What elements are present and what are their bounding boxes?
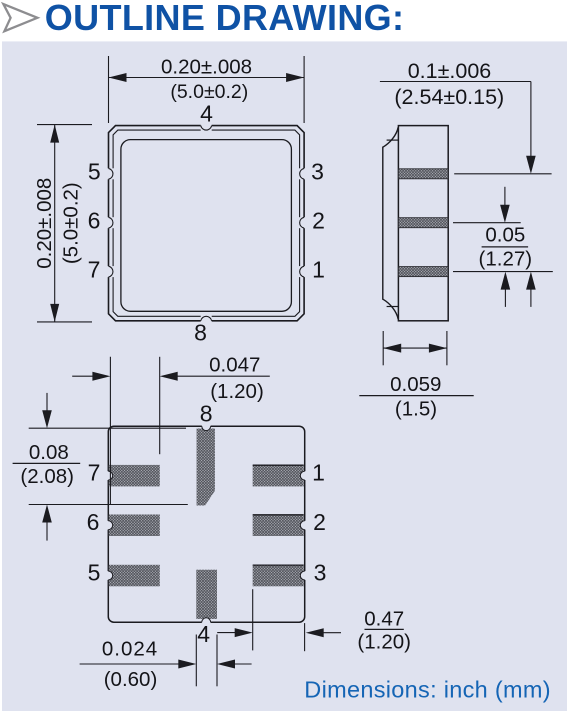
svg-text:3: 3 — [314, 560, 327, 586]
left height dimension tick top — [37, 124, 92, 126]
svg-text:4: 4 — [197, 621, 210, 647]
0.47 dim right tail line — [323, 632, 341, 634]
svg-text:(0.60): (0.60) — [104, 668, 158, 691]
pin 4 label (bottom view) — [197, 621, 210, 647]
pad P1 top border line — [253, 464, 304, 466]
pin 1 label (top view) — [312, 256, 325, 282]
top width dimension arrowhead left — [109, 73, 127, 82]
left height dimension tick bottom — [37, 321, 92, 323]
top view cavity (rounded square) — [121, 140, 292, 312]
0.047 dim left tail line — [72, 375, 93, 377]
0.47 dim extension line at body right edge — [304, 623, 306, 651]
pad P1 (hatched) — [253, 465, 304, 487]
0.047 dim extension line 2 — [159, 357, 161, 454]
dimension text 0.05 — [485, 223, 525, 246]
0.08 dim upper line — [29, 427, 186, 429]
dimension text 0.024 — [102, 638, 158, 661]
svg-text:Dimensions: inch (mm): Dimensions: inch (mm) — [304, 677, 551, 703]
top width dimension extension line left — [108, 56, 110, 123]
castellation notch pin 6 (top view left) — [106, 217, 114, 228]
svg-text:2: 2 — [313, 509, 326, 535]
dimension text (1.20) top — [210, 380, 264, 403]
0.47 dim arrowhead right-pointing — [235, 628, 253, 637]
pin 3 label (bottom view) — [314, 560, 327, 586]
pad P2 top border line — [253, 514, 304, 516]
0.08 dim up arrow stem — [46, 522, 48, 541]
left height dimension arrowhead top — [50, 125, 59, 143]
svg-text:7: 7 — [88, 460, 101, 486]
0.08 dim down arrowhead — [42, 410, 52, 428]
svg-text:0.08: 0.08 — [29, 441, 69, 464]
dimension text (5.0±0.2) (left, rotated) — [60, 182, 83, 264]
bottom view notch pin 7 — [107, 471, 113, 480]
side view 0.059 dim extension line left — [382, 331, 384, 365]
pad P5 (hatched) — [109, 565, 160, 587]
dimension text 0.059 — [390, 373, 441, 396]
top width dimension arrowhead right — [286, 73, 304, 82]
dimension text (5.0±0.2) (top) — [170, 81, 248, 103]
fraction bar 0.05/(1.27) — [482, 246, 528, 248]
side view 0.05 dim down arrow stem — [504, 187, 506, 205]
svg-text:0.20±.008: 0.20±.008 — [161, 55, 252, 78]
0.08 dim lower line — [29, 504, 188, 506]
dimension text (1.20) right — [357, 631, 411, 654]
bottom view body outline (rounded square) — [108, 426, 304, 622]
side view 0.059 arrowhead left — [383, 344, 401, 353]
side view 0.1 dim up arrowhead at band line 3 — [526, 272, 536, 290]
svg-text:1: 1 — [312, 256, 325, 282]
svg-text:8: 8 — [194, 320, 207, 346]
dimension text (2.08) — [20, 465, 74, 488]
side view 0.05 dim down arrowhead — [500, 205, 510, 223]
castellation notch pin 3 (top view right) — [298, 168, 306, 179]
svg-text:1: 1 — [312, 459, 325, 485]
fraction bar 0.47/(1.20) — [365, 628, 404, 630]
0.047 dim right tail line — [177, 375, 270, 377]
top width dimension extension line right — [303, 56, 305, 123]
side view dim arrowhead down at band line 1 — [526, 156, 536, 174]
svg-text:0.024: 0.024 — [102, 638, 158, 661]
0.08 dim down arrow stem — [46, 393, 48, 411]
header arrow icon — [3, 4, 37, 31]
top view outer body outline (chamfered square) — [109, 126, 305, 321]
side view lid top seam line — [387, 139, 399, 141]
side view body rectangle — [398, 126, 448, 321]
svg-text:(2.54±0.15): (2.54±0.15) — [394, 85, 504, 109]
svg-text:0.47: 0.47 — [364, 608, 404, 631]
svg-text:7: 7 — [88, 256, 101, 282]
0.47 dim arrowhead left-pointing — [306, 628, 324, 637]
dimension text 0.20±.008 (left, rotated) — [33, 178, 56, 269]
svg-text:(1.5): (1.5) — [395, 398, 437, 421]
fraction bar 0.08/(2.08) — [13, 462, 81, 464]
pin 2 label (top view) — [312, 207, 325, 233]
svg-text:(1.20): (1.20) — [357, 631, 411, 654]
side view 0.05 dim up arrow stem — [504, 289, 506, 307]
svg-text:(5.0±0.2): (5.0±0.2) — [170, 81, 248, 103]
dimension text (1.5) — [395, 398, 437, 421]
pad P6 (hatched) — [109, 515, 160, 537]
side view lid top S-curve — [383, 127, 398, 147]
0.047 dim arrowhead right-pointing — [92, 372, 110, 381]
0.024 dim extension line right — [216, 635, 218, 687]
pin 2 label (bottom view) — [313, 509, 326, 535]
side view lid bottom seam line — [387, 306, 399, 308]
pad P8 (top center, chamfered, hatched) — [197, 429, 215, 506]
dimension text (0.60) — [104, 668, 158, 691]
svg-text:0.047: 0.047 — [209, 353, 260, 376]
dimension text 0.47 — [364, 608, 404, 631]
dimension text (2.54±0.15) — [394, 85, 504, 109]
pad P4 (bottom center, hatched) — [196, 570, 217, 619]
dimension text 0.08 — [29, 441, 69, 464]
svg-text:OUTLINE DRAWING:: OUTLINE DRAWING: — [45, 0, 405, 38]
svg-text:5: 5 — [88, 159, 101, 185]
band level line 1 — [454, 173, 551, 175]
pin 6 label (bottom view) — [87, 509, 100, 535]
pin 5 label (bottom view) — [88, 560, 101, 586]
pad P7 (hatched) — [109, 465, 160, 487]
dimension text 0.047 — [209, 353, 260, 376]
side view dim 0.1±.006 vertical leader — [530, 82, 532, 157]
0.024 dim extension line left — [195, 635, 197, 687]
pin 7 label (bottom view) — [88, 460, 101, 486]
band level line 2 — [453, 222, 521, 224]
svg-text:8: 8 — [200, 400, 213, 426]
side view lid flange left wall — [382, 147, 384, 300]
bottom view notch pin 6 — [107, 521, 112, 530]
svg-text:0.05: 0.05 — [485, 223, 525, 246]
top width dimension line — [109, 77, 305, 79]
side view castellation band 3 (hatched) — [398, 267, 448, 277]
bottom view notch pin 8 (top edge) — [202, 425, 211, 431]
pad P3 top border line — [253, 564, 304, 566]
svg-text:6: 6 — [88, 207, 101, 233]
dimension text 0.1±.006 — [408, 59, 492, 83]
left height dimension arrowhead bottom — [50, 304, 59, 322]
svg-text:(2.08): (2.08) — [20, 465, 74, 488]
0.08 dim up arrowhead — [42, 505, 52, 523]
side view 0.059 arrowhead right — [429, 344, 447, 353]
0.024 dim arrowhead right-pointing — [178, 660, 196, 669]
svg-text:0.1±.006: 0.1±.006 — [408, 59, 492, 83]
svg-text:(1.20): (1.20) — [210, 380, 264, 403]
bottom view notch pin 1 — [300, 471, 306, 480]
dimension text 0.20±.008 (top) — [161, 55, 252, 78]
svg-text:0.20±.008: 0.20±.008 — [33, 178, 56, 269]
pin 8 label (bottom view) — [200, 400, 213, 426]
side view castellation band 1 (hatched) — [398, 169, 448, 179]
0.024 dim line with left tail — [80, 663, 179, 665]
bottom view notch pin 3 — [300, 571, 306, 580]
pad P2 (hatched) — [253, 515, 304, 537]
pin 8 label (top view) — [194, 320, 207, 346]
pad P3 (hatched) — [253, 565, 304, 587]
0.47 dim left tail line — [217, 632, 235, 634]
side view 0.059 dim line — [383, 347, 447, 349]
pin 4 label (top view) — [200, 101, 213, 127]
svg-text:5: 5 — [88, 560, 101, 586]
bottom view notch pin 5 — [107, 571, 113, 580]
0.47 dim extension line at pad P3 left edge — [252, 589, 254, 650]
castellation notch pin 4 (top view top edge) — [201, 124, 212, 132]
bottom view notch pin 2 — [300, 521, 305, 530]
side view 0.1 dim up arrow stem — [530, 289, 532, 307]
castellation notch pin 7 (top view left) — [106, 266, 114, 277]
svg-text:3: 3 — [311, 159, 324, 185]
svg-text:6: 6 — [87, 509, 100, 535]
0.024 dim right tail line — [234, 663, 251, 665]
footnote Dimensions: inch (mm) — [304, 677, 551, 703]
side view 0.059 dim extension line right — [446, 331, 448, 365]
pin 1 label (bottom view) — [312, 459, 325, 485]
svg-text:(1.27): (1.27) — [479, 248, 533, 271]
pin 3 label (top view) — [311, 159, 324, 185]
0.047 dim extension line 1 — [109, 357, 111, 505]
pin 7 label (top view) — [88, 256, 101, 282]
side view dim 0.1±.006 horizontal line — [380, 81, 531, 83]
fraction bar 0.059/(1.5) — [359, 395, 473, 397]
band level line 3 — [453, 271, 553, 273]
pin 6 label (top view) — [88, 207, 101, 233]
0.047 dim arrowhead left-pointing — [160, 372, 178, 381]
left height dimension line — [54, 125, 56, 322]
castellation notch pin 1 (top view right) — [298, 266, 306, 277]
pin 5 label (top view) — [88, 159, 101, 185]
castellation notch pin 8 (top view bottom edge) — [201, 315, 212, 323]
side view 0.05 dim up arrowhead — [501, 272, 511, 290]
bottom view notch pin 4 (bottom edge) — [202, 618, 211, 623]
top view inner offset outline — [113, 130, 300, 316]
side view lid bottom S-curve — [383, 299, 398, 319]
svg-text:0.059: 0.059 — [390, 373, 441, 396]
0.024 dim arrowhead left-pointing — [217, 660, 235, 669]
dimension text (1.27) — [479, 248, 533, 271]
svg-text:4: 4 — [200, 101, 213, 127]
side view castellation band 2 (hatched) — [398, 218, 448, 228]
castellation notch pin 2 (top view right) — [298, 217, 306, 228]
svg-text:(5.0±0.2): (5.0±0.2) — [60, 182, 83, 264]
castellation notch pin 5 (top view left) — [106, 168, 114, 179]
svg-text:2: 2 — [312, 207, 325, 233]
